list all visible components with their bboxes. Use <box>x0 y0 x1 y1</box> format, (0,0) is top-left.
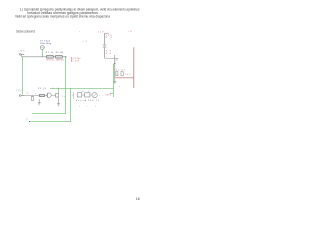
svg-text:IO1: IO1 <box>19 51 26 53</box>
svg-text:R1 1k: R1 1k <box>46 52 54 54</box>
wire U2 to U1 <box>82 94 85 96</box>
meter XMM1 <box>92 93 97 98</box>
battery V2 plates <box>103 44 107 46</box>
battery V2 wire top tick <box>105 32 109 34</box>
svg-text:+ .: + . <box>95 106 100 108</box>
right chain wire <box>114 55 116 78</box>
svg-text:+: + <box>86 106 87 108</box>
battery V2 wire bottom <box>104 48 106 59</box>
green wire right drop <box>113 64 115 97</box>
green wire feedback 1 <box>32 113 66 115</box>
tick near port <box>27 92 29 94</box>
ground stem <box>114 78 116 81</box>
svg-text:1k5: 1k5 <box>125 74 130 76</box>
green wire left drop <box>22 57 24 95</box>
svg-text:D1 D2: D1 D2 <box>116 69 125 71</box>
svg-text:1kOhm: 1kOhm <box>46 59 54 61</box>
green stub C2 to bus <box>58 89 60 94</box>
stage2 box U1 <box>85 93 90 97</box>
wire U1 to meter <box>90 94 92 96</box>
tick into green drop <box>110 92 113 94</box>
ground G1 <box>38 102 41 104</box>
svg-text:R2 10k: R2 10k <box>56 52 64 54</box>
svg-text:12V: 12V <box>98 31 105 33</box>
svg-text:+ -: + - <box>99 95 103 97</box>
capacitor C1 <box>71 57 73 62</box>
wire C2 down <box>58 97 60 100</box>
source V1 <box>40 46 44 50</box>
load wire horizontal (maroon) <box>115 77 134 79</box>
svg-text:Darba uzdevums: Darba uzdevums <box>16 29 35 33</box>
svg-text:+: + <box>79 106 80 108</box>
svg-text:2x: 2x <box>62 96 65 98</box>
svg-text:Veikt ari spriegumu seku merij: Veikt ari spriegumu seku merijumus un iz… <box>15 14 110 18</box>
stage2 box U2 <box>77 93 82 97</box>
svg-text:0: 0 <box>26 119 27 121</box>
stage2 wire <box>25 95 44 97</box>
resistor R2 <box>56 56 63 59</box>
junction dot feedback <box>29 121 30 122</box>
resistor R3 <box>40 94 45 96</box>
svg-text:R3 Q1: R3 Q1 <box>38 88 46 90</box>
green wire long drop mid <box>65 57 67 114</box>
svg-text:+: + <box>35 93 36 95</box>
wire V1 to main (green) <box>42 50 44 57</box>
green wire feedback 2 <box>29 121 71 123</box>
svg-text:10nF: 10nF <box>73 60 79 62</box>
transistor Q1 <box>47 93 51 97</box>
diode D2 <box>121 72 123 76</box>
ground G2 <box>57 103 60 105</box>
svg-text:IO2: IO2 <box>17 90 22 92</box>
svg-text:XSC1: XSC1 <box>105 95 111 97</box>
wire mid faint <box>73 92 75 99</box>
green wire drop 2 <box>70 88 72 121</box>
main wire W1 <box>22 56 66 58</box>
wire battery to chain <box>105 57 115 59</box>
stage2 input port <box>19 95 21 97</box>
svg-text:1kHz 0Deg: 1kHz 0Deg <box>40 43 52 45</box>
svg-text:+U: +U <box>128 31 133 33</box>
green wire stage2 bus <box>50 88 114 90</box>
wire Q1 to C2 <box>51 94 55 96</box>
load wire vertical (maroon) <box>133 47 135 88</box>
junction node A <box>65 56 66 57</box>
capacitor C2 <box>56 94 59 97</box>
wire R3 to Q1 <box>45 95 47 97</box>
ground <box>113 81 116 83</box>
chain component mark <box>116 58 119 60</box>
battery V2 wire <box>104 33 106 44</box>
input port <box>19 53 21 55</box>
svg-text:16: 16 <box>136 197 140 201</box>
svg-text:+: + <box>119 86 120 88</box>
junction node B <box>114 63 115 64</box>
resistor R1 <box>47 56 54 59</box>
svg-text:50% 1k: 50% 1k <box>88 100 99 102</box>
diode D1 <box>116 72 118 76</box>
svg-text:10kOhm: 10kOhm <box>56 59 64 61</box>
resistor R4 vertical <box>31 97 34 101</box>
